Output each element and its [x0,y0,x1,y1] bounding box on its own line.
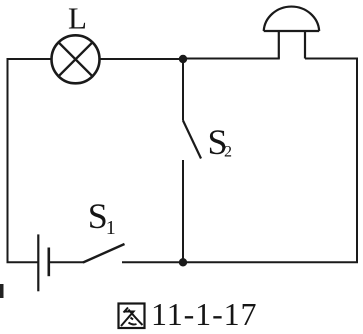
svg-text:11-1-17: 11-1-17 [151,296,257,332]
switch S1 [83,244,125,263]
wire S1 to bottom junction [122,261,183,263]
svg-text:L: L [68,1,87,36]
wire lamp to top junction [100,58,184,60]
wire bell right pin to top-right corner [305,58,358,60]
svg-text:2: 2 [224,144,232,161]
switch S2 [183,121,201,159]
label S2 [208,122,233,162]
wire bottom junction to bottom-right corner [183,261,358,263]
wire top junction to bell left pin [183,58,280,60]
caption character tu (drawn) [119,304,145,329]
wire middle branch lower [182,160,184,263]
battery [38,234,49,291]
lamp L [52,35,100,83]
wire battery to switch S1 [49,261,84,263]
wire left vertical [7,58,9,263]
label S1 [88,196,116,239]
wire top-left horizontal [7,58,53,60]
wire bottom-left to battery [7,261,39,263]
bell [264,7,320,59]
svg-text:1: 1 [106,217,116,239]
scan artifact left edge [0,284,4,298]
wire middle branch upper [182,59,184,121]
wire right vertical [356,58,358,264]
junction node bottom [179,258,187,266]
junction node top [179,55,187,63]
